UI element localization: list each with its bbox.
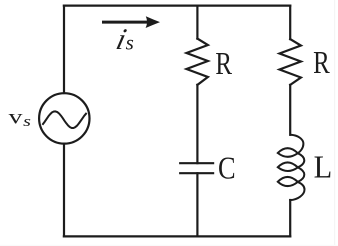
svg-text:C: C: [218, 149, 236, 185]
svg-text:R: R: [215, 45, 232, 81]
svg-text:R: R: [313, 44, 330, 80]
svg-text:s: s: [126, 31, 134, 55]
svg-text:s: s: [23, 114, 31, 130]
svg-text:L: L: [314, 149, 333, 185]
svg-text:v: v: [9, 105, 23, 129]
